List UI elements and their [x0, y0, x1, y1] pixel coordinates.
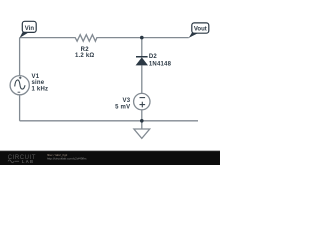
- svg-text:V3: V3: [123, 98, 131, 104]
- svg-text:1N4148: 1N4148: [149, 61, 172, 67]
- svg-text:Vout: Vout: [194, 26, 207, 32]
- svg-text:V1: V1: [32, 74, 40, 80]
- svg-text:5 mV: 5 mV: [115, 104, 130, 110]
- svg-text:D2: D2: [149, 54, 158, 60]
- svg-text:sine: sine: [32, 80, 45, 86]
- svg-text:1 kHz: 1 kHz: [32, 86, 49, 92]
- svg-text:1.2 kΩ: 1.2 kΩ: [75, 53, 94, 59]
- svg-text:http://circuitlab.com/c2vf49fh: http://circuitlab.com/c2vf49fhx: [47, 156, 87, 160]
- svg-text:LAB: LAB: [22, 159, 34, 164]
- svg-text:Vin: Vin: [25, 26, 35, 32]
- svg-text:R2: R2: [81, 47, 90, 53]
